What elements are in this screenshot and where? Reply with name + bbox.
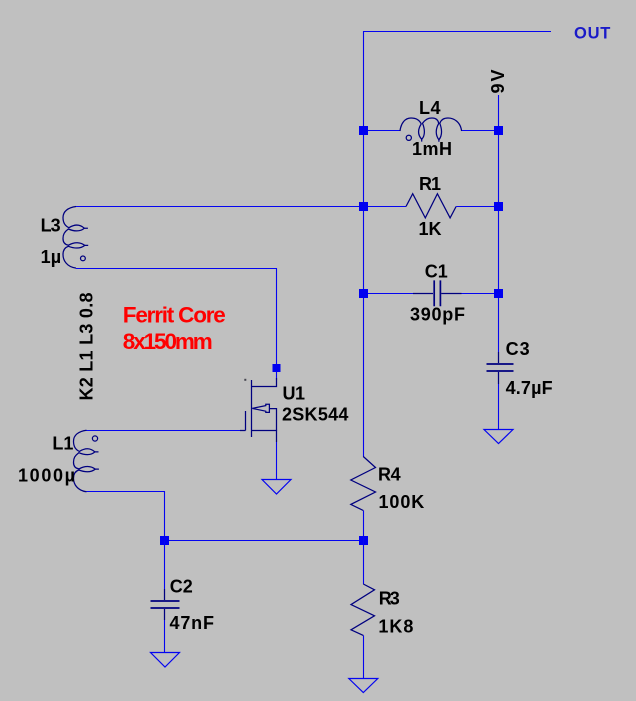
resistor R4 zigzag bbox=[351, 457, 376, 511]
svg-text:L3: L3 bbox=[41, 216, 61, 236]
transistor U1 pin-1 dot bbox=[244, 379, 246, 381]
svg-text:47nF: 47nF bbox=[170, 613, 215, 633]
wire L4 left lead bbox=[364, 130, 401, 132]
wire R1 right lead bbox=[456, 206, 498, 208]
svg-text:100K: 100K bbox=[379, 492, 425, 512]
inductor L4 loop stubs bbox=[422, 139, 439, 142]
svg-text:C3: C3 bbox=[506, 339, 530, 359]
wire U1 gate lead bbox=[240, 430, 246, 432]
wire L4 right lead bbox=[462, 130, 499, 132]
capacitor C2 top lead bbox=[164, 589, 166, 600]
ground symbol under C2 bbox=[151, 653, 180, 668]
wire C1 left wire bbox=[364, 293, 414, 295]
node junction at U1 drain bbox=[273, 364, 281, 372]
inductor L1 phase dot bbox=[92, 436, 97, 441]
ground symbol under U1 bbox=[262, 480, 291, 495]
wire C2 stem bbox=[164, 541, 166, 590]
svg-text:OUT: OUT bbox=[574, 25, 610, 43]
wire C3 to ground bbox=[498, 384, 500, 430]
inductor L3 (vertical coil) bbox=[63, 207, 85, 269]
svg-text:C1: C1 bbox=[425, 262, 448, 282]
wire C2 to ground bbox=[164, 620, 166, 653]
node junction R1 left bbox=[359, 202, 368, 211]
wire junction to R3 bbox=[363, 541, 365, 585]
wire L1 bottom to junction bbox=[87, 492, 165, 541]
node junction L4 right bbox=[494, 126, 503, 135]
wire U1 source to ground bbox=[276, 442, 278, 480]
inductor L1 (vertical coil) bbox=[74, 430, 96, 492]
resistor R1 zigzag bbox=[406, 194, 456, 218]
transistor U1 source stub bbox=[252, 431, 277, 443]
node junction L4 left bbox=[359, 126, 368, 135]
svg-text:Ferrit Core: Ferrit Core bbox=[123, 303, 226, 328]
svg-text:L4: L4 bbox=[419, 98, 441, 118]
svg-text:4.7µF: 4.7µF bbox=[506, 378, 553, 398]
svg-text:1K: 1K bbox=[419, 219, 442, 239]
wire R3 to ground bbox=[363, 635, 365, 678]
node junction C1 left bbox=[359, 289, 368, 298]
transistor U1 drain lead bbox=[252, 378, 277, 387]
node junction C1 right bbox=[494, 289, 503, 298]
svg-text:2SK544: 2SK544 bbox=[282, 404, 348, 424]
transistor U1 channel bar bbox=[251, 380, 253, 437]
resistor R3 zigzag bbox=[351, 584, 375, 635]
wire R4 bottom to junction bbox=[363, 511, 365, 541]
ground symbol under R3 bbox=[349, 679, 378, 693]
capacitor C3 top lead bbox=[498, 352, 500, 363]
transistor U1 arrow head bbox=[252, 404, 269, 412]
svg-text:1µ: 1µ bbox=[41, 247, 62, 267]
svg-text:9V: 9V bbox=[488, 70, 508, 94]
svg-text:1mH: 1mH bbox=[412, 139, 452, 159]
wire L3 bottom net bbox=[76, 269, 277, 365]
inductor L4 bbox=[400, 118, 462, 140]
node junction R1 right bbox=[494, 202, 503, 211]
inductor L4 phase dot bbox=[406, 135, 411, 140]
capacitor C1 plates bbox=[434, 280, 440, 306]
inductor L3 loop stubs bbox=[84, 228, 88, 245]
wire node to drain bbox=[276, 371, 278, 380]
node junction C2 top bbox=[160, 536, 169, 545]
capacitor C2 bottom lead bbox=[164, 609, 166, 620]
ground symbol under C3 bbox=[484, 430, 513, 444]
svg-text:1K8: 1K8 bbox=[378, 617, 413, 637]
capacitor C1 leads bbox=[413, 293, 462, 295]
wire R1 left lead bbox=[364, 206, 407, 208]
svg-text:1000µ: 1000µ bbox=[18, 466, 75, 486]
wire L3 top net to R1 bbox=[75, 206, 364, 208]
svg-text:R3: R3 bbox=[379, 589, 400, 609]
wire C1 right wire bbox=[462, 293, 499, 295]
svg-text:R1: R1 bbox=[419, 174, 441, 194]
svg-text:8x150mm: 8x150mm bbox=[123, 329, 213, 354]
inductor L3 phase dot bbox=[81, 256, 86, 261]
wire junction row bbox=[165, 540, 364, 542]
capacitor C3 plates bbox=[487, 364, 514, 371]
wire gate to L1 bbox=[86, 430, 241, 432]
inductor L1 loop stubs bbox=[95, 452, 99, 469]
wire 9V supply stem and right bus vertical bbox=[498, 95, 500, 352]
svg-text:R4: R4 bbox=[378, 465, 401, 485]
svg-text:K2 L1 L3 0.8: K2 L1 L3 0.8 bbox=[77, 293, 97, 401]
capacitor C3 bottom lead bbox=[498, 372, 500, 384]
node junction R4 bottom bbox=[359, 536, 368, 545]
svg-text:L1: L1 bbox=[52, 433, 73, 453]
svg-text:U1: U1 bbox=[283, 383, 306, 403]
svg-text:390pF: 390pF bbox=[410, 305, 465, 325]
capacitor C2 plates bbox=[151, 601, 180, 608]
svg-text:C2: C2 bbox=[170, 577, 193, 597]
transistor U1 substrate stub with arrow bbox=[269, 409, 276, 431]
transistor U1 gate bar bbox=[245, 411, 247, 431]
wire OUT net horizontal and left bus vertical bbox=[364, 32, 552, 458]
